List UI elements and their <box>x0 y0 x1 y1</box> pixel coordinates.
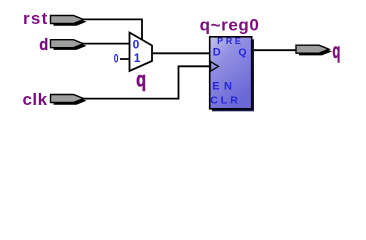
svg-text:q: q <box>136 69 146 92</box>
output pin q <box>296 45 332 55</box>
wire stub constant to mux <box>120 58 130 60</box>
wire register Q to output pin <box>252 49 297 51</box>
register clock triangle <box>211 62 219 72</box>
register q~reg0 <box>210 37 254 112</box>
input pin d <box>51 40 87 50</box>
svg-text:0: 0 <box>133 37 140 51</box>
svg-text:q~reg0: q~reg0 <box>200 15 260 34</box>
svg-text:rst: rst <box>23 9 49 28</box>
svg-text:0: 0 <box>114 51 119 65</box>
wire clk to register clock <box>83 66 210 98</box>
wire rst to mux select <box>83 19 142 40</box>
wire d to mux input 0 <box>83 43 130 45</box>
mux U_q (2:1 multiplexer) <box>130 33 153 72</box>
input pin rst <box>51 16 87 26</box>
svg-text:1: 1 <box>134 51 141 65</box>
input pin clk <box>51 95 87 105</box>
svg-text:q: q <box>332 40 340 63</box>
svg-text:PRE: PRE <box>217 36 243 46</box>
svg-text:CLR: CLR <box>210 95 241 107</box>
svg-text:d: d <box>39 35 48 54</box>
svg-text:D: D <box>213 47 221 59</box>
svg-text:EN: EN <box>212 80 236 92</box>
wire mux output to register D input <box>152 52 210 54</box>
svg-text:Q: Q <box>238 47 246 59</box>
svg-text:clk: clk <box>22 90 47 109</box>
